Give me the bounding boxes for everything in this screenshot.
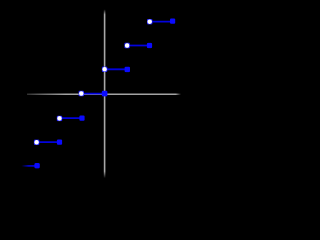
wire: step segment y=-3 (clipped left) [22,165,38,167]
closed point (-2,-2) [57,140,62,145]
wire: step segment y=-1 [60,117,83,119]
closed point (0,0) at origin [102,91,108,97]
wire: step segment y=0 [82,93,105,95]
open point (0,1) [102,67,107,72]
closed point (2,2) [147,43,152,48]
closed point (-1,-1) [79,116,84,121]
open point (-1,0) [79,91,84,96]
open point (-3,-2) [34,140,39,145]
wire: step segment y=1 [105,68,127,70]
y-axis [104,9,106,178]
closed point (-3,-3) [34,163,39,168]
wire: step segment y=-2 [37,141,60,143]
x-axis [27,94,181,96]
wire: step segment y=3 [150,21,173,23]
open point (2,3) [147,19,152,24]
open point (-2,-1) [57,116,62,121]
open point (1,2) [124,43,129,48]
wire: step segment y=2 [127,45,150,47]
step-function (ceiling) plot [0,0,200,200]
closed point (3,3) [170,19,175,24]
closed point (1,1) [125,67,130,72]
